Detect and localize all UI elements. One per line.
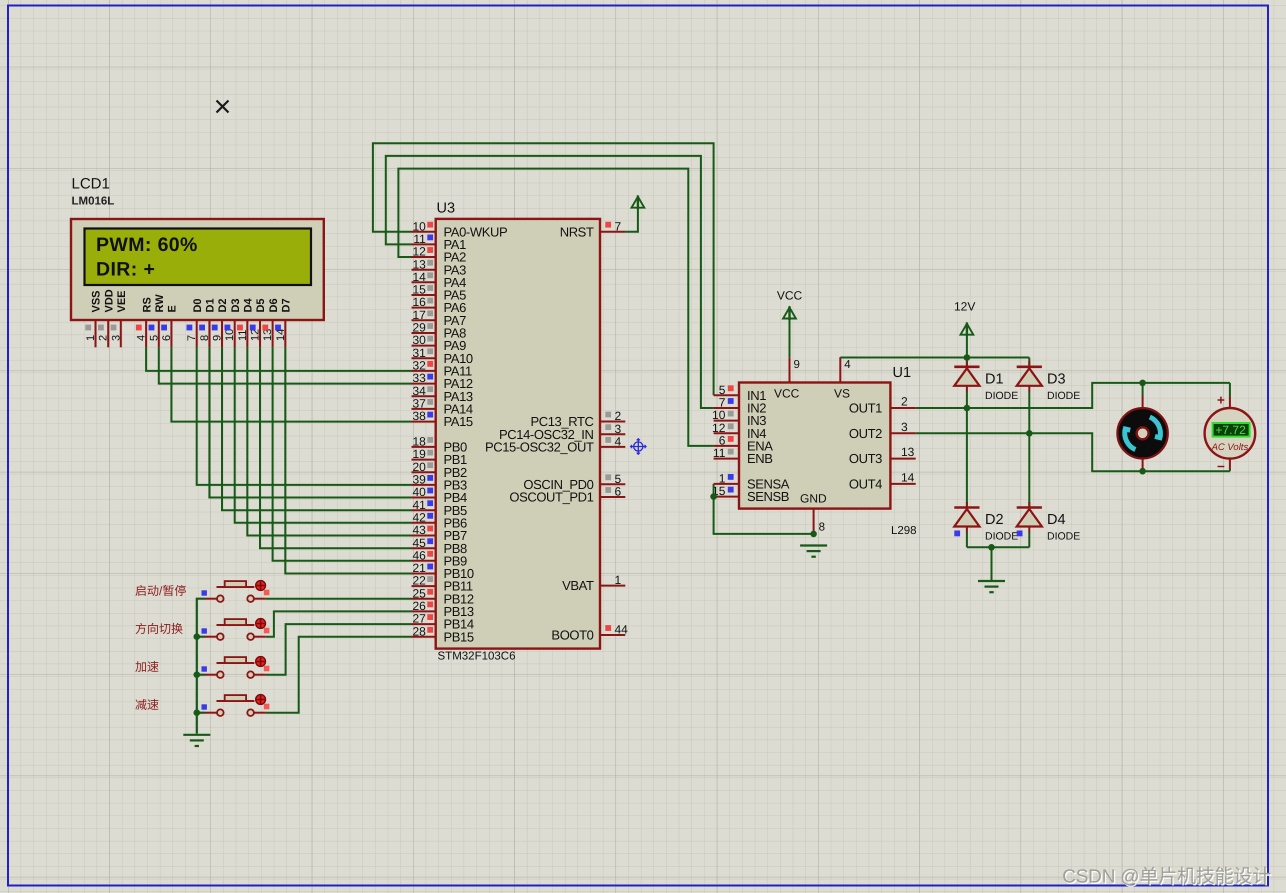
LCD pin 7 D0 bbox=[186, 298, 204, 347]
svg-text:D2: D2 bbox=[217, 298, 229, 312]
MCU U3 STM32F103C6 bbox=[436, 201, 600, 663]
svg-text:VBAT: VBAT bbox=[562, 578, 594, 593]
svg-text:GND: GND bbox=[800, 492, 827, 506]
U3 pin 13 PA3 bbox=[412, 257, 467, 277]
svg-text:5: 5 bbox=[148, 335, 160, 341]
svg-text:U1: U1 bbox=[893, 365, 912, 381]
U1 pin 14 OUT4 bbox=[849, 471, 916, 492]
U3 pin 20 PB2 bbox=[412, 460, 468, 480]
U1 pin 10 IN3 bbox=[712, 408, 766, 428]
U3 pin 28 PB15 bbox=[412, 624, 474, 644]
svg-text:1: 1 bbox=[85, 335, 97, 341]
U3 pin 34 PA13 bbox=[412, 384, 473, 404]
svg-text:7: 7 bbox=[615, 219, 622, 233]
svg-text:STM32F103C6: STM32F103C6 bbox=[438, 651, 516, 663]
U3 pin 29 PA8 bbox=[412, 321, 467, 341]
svg-text:−: − bbox=[1217, 459, 1225, 474]
svg-text:9: 9 bbox=[794, 359, 800, 371]
svg-text:12: 12 bbox=[250, 329, 262, 341]
svg-text:NRST: NRST bbox=[560, 224, 594, 239]
U3 pin 12 PA2 bbox=[412, 245, 467, 265]
VCC power symbol bbox=[777, 289, 803, 358]
U1 pin 2 OUT1 bbox=[849, 395, 916, 416]
U3 pin 31 PA10 bbox=[412, 346, 473, 366]
push button SW2 方向切换 bbox=[135, 619, 269, 640]
U3 pin 17 PA7 bbox=[412, 308, 467, 328]
U3 pin 16 PA6 bbox=[412, 295, 467, 315]
svg-text:13: 13 bbox=[901, 445, 915, 459]
U3 pin 41 PB5 bbox=[412, 498, 468, 518]
U3 pin 44 BOOT0 bbox=[551, 623, 628, 643]
svg-text:DIODE: DIODE bbox=[1047, 531, 1080, 543]
svg-text:减速: 减速 bbox=[135, 698, 159, 712]
wire junction bbox=[194, 671, 201, 678]
wire LCD pin 6 to U3 bbox=[171, 347, 411, 421]
12V power symbol bbox=[954, 300, 975, 358]
junction D1/D2/OUT1 bbox=[964, 405, 971, 412]
wire 12V rail to D3 bbox=[967, 357, 1029, 359]
U3 pin 7 NRST bbox=[560, 219, 626, 239]
svg-text:OUT1: OUT1 bbox=[849, 401, 882, 416]
wire LCD pin 4 to U3 bbox=[146, 347, 411, 371]
svg-text:RW: RW bbox=[154, 294, 166, 313]
wire OUT1 to motor top bbox=[916, 383, 1230, 408]
U3 pin 14 PA4 bbox=[412, 270, 467, 290]
svg-text:10: 10 bbox=[224, 329, 236, 341]
junction motor bottom bbox=[1139, 468, 1146, 475]
motor M1 bbox=[1117, 408, 1167, 458]
svg-text:44: 44 bbox=[615, 623, 629, 637]
LCD pin 14 D7 bbox=[275, 298, 293, 347]
push button SW1 启动/暂停 bbox=[135, 581, 269, 602]
push button SW4 减速 bbox=[135, 695, 269, 716]
svg-text:+7.72: +7.72 bbox=[1215, 423, 1246, 437]
wire LCD pin 10 to U3 bbox=[235, 347, 412, 523]
svg-text:OUT4: OUT4 bbox=[849, 477, 882, 492]
svg-text:+: + bbox=[1217, 393, 1225, 408]
svg-text:L298: L298 bbox=[891, 525, 917, 537]
U3 pin 37 PA14 bbox=[412, 397, 473, 417]
wire SW3 to PB14 bbox=[266, 624, 412, 675]
svg-text:8: 8 bbox=[819, 522, 825, 534]
svg-text:OUT3: OUT3 bbox=[849, 451, 882, 466]
U3 pin 42 PB6 bbox=[412, 510, 468, 530]
LCD pin 3 VEE bbox=[110, 290, 128, 347]
svg-text:PC15-OSC32_OUT: PC15-OSC32_OUT bbox=[485, 440, 594, 455]
U3 pin 6 OSCOUT_PD1 bbox=[509, 485, 625, 505]
voltmeter VM1 bbox=[1205, 393, 1256, 475]
wire to bridge ground bbox=[991, 547, 993, 580]
LCD pin 11 D4 bbox=[237, 298, 255, 348]
wire LCD pin 8 to U3 bbox=[209, 347, 411, 497]
svg-text:LCD1: LCD1 bbox=[72, 176, 110, 193]
svg-text:ENB: ENB bbox=[747, 451, 773, 466]
wire LCD pin 5 to U3 bbox=[159, 347, 412, 383]
U3 pin 21 PB10 bbox=[412, 561, 474, 581]
U1 pin 9 VCC top bbox=[790, 357, 800, 382]
U3 pin 11 PA1 bbox=[412, 232, 467, 252]
junction 12V rail bbox=[964, 354, 971, 361]
wire PA2 to L298 ENA bbox=[398, 169, 713, 446]
wire bridge bottom rail bbox=[967, 546, 1029, 548]
U3 pin 40 PB4 bbox=[412, 485, 468, 505]
U3 pin 1 VBAT bbox=[562, 573, 625, 593]
svg-text:VS: VS bbox=[834, 387, 850, 401]
U1 pin 6 ENA bbox=[714, 434, 774, 454]
svg-text:4: 4 bbox=[615, 435, 622, 449]
ground under L298 bbox=[800, 544, 827, 546]
U3 pin 26 PB13 bbox=[412, 599, 474, 619]
U1 pin 4 VS top bbox=[840, 357, 851, 382]
U3 pin 10 PA0-WKUP bbox=[412, 219, 508, 239]
LCD pin 13 D6 bbox=[262, 298, 280, 347]
svg-text:VEE: VEE bbox=[116, 290, 128, 312]
svg-text:6: 6 bbox=[615, 485, 622, 499]
svg-text:OSCOUT_PD1: OSCOUT_PD1 bbox=[509, 490, 593, 505]
wire PA1 to L298 IN2 bbox=[386, 156, 714, 408]
svg-text:D7: D7 bbox=[281, 298, 293, 312]
svg-text:VDD: VDD bbox=[103, 289, 115, 312]
svg-text:28: 28 bbox=[412, 624, 426, 638]
U3 pin 22 PB11 bbox=[412, 574, 473, 594]
U1 pin 3 OUT2 bbox=[849, 420, 916, 441]
svg-text:VSS: VSS bbox=[91, 290, 103, 312]
svg-text:14: 14 bbox=[901, 471, 915, 485]
svg-text:7: 7 bbox=[186, 335, 198, 341]
svg-text:D2: D2 bbox=[985, 512, 1004, 528]
wire D1 to OUT1 node bbox=[966, 392, 968, 409]
LCD pin 6 E bbox=[161, 305, 179, 347]
U3 pin 5 OSCIN_PD0 bbox=[523, 472, 625, 492]
watermark bbox=[1062, 866, 1272, 888]
U1 pin 5 IN1 bbox=[714, 383, 767, 403]
svg-text:1: 1 bbox=[615, 573, 622, 587]
U3 pin 25 PB12 bbox=[412, 586, 474, 606]
U3 pin 32 PA11 bbox=[412, 359, 472, 379]
ground under buttons bbox=[183, 734, 210, 736]
svg-text:3: 3 bbox=[901, 420, 908, 434]
wire button common bus bbox=[197, 599, 205, 734]
wire LCD pin 11 to U3 bbox=[247, 347, 411, 535]
svg-text:D5: D5 bbox=[255, 298, 267, 312]
svg-text:DIODE: DIODE bbox=[1047, 390, 1080, 402]
diode D4 bbox=[1017, 502, 1081, 543]
svg-text:12V: 12V bbox=[954, 300, 975, 314]
svg-text:E: E bbox=[167, 305, 179, 312]
svg-text:D6: D6 bbox=[268, 298, 280, 312]
svg-text:4: 4 bbox=[844, 359, 851, 371]
U3 pin 2 PC13_RTC bbox=[530, 409, 625, 429]
LCD pin 2 VDD bbox=[98, 289, 116, 347]
diode D1 bbox=[954, 361, 1018, 402]
svg-text:加速: 加速 bbox=[135, 660, 159, 674]
svg-text:14: 14 bbox=[275, 329, 287, 341]
U1 pin 8 GND bottom bbox=[814, 509, 825, 534]
U1 pin 11 ENB bbox=[713, 446, 773, 466]
blue square D2 bbox=[954, 531, 960, 537]
wire LCD pin 9 to U3 bbox=[222, 347, 412, 510]
U1 pin 12 IN4 bbox=[712, 421, 766, 441]
power symbol at NRST bbox=[637, 196, 639, 210]
wire D2 to bottom rail bbox=[966, 532, 968, 547]
push button SW3 加速 bbox=[135, 657, 269, 678]
wire LCD pin 14 to U3 bbox=[285, 347, 411, 573]
diode D2 bbox=[954, 502, 1018, 543]
svg-text:D1: D1 bbox=[985, 371, 1004, 387]
svg-text:RS: RS bbox=[141, 297, 153, 312]
svg-text:OUT2: OUT2 bbox=[849, 426, 882, 441]
wire LCD pin 13 to U3 bbox=[273, 347, 412, 561]
svg-text:8: 8 bbox=[199, 335, 211, 341]
svg-text:SENSB: SENSB bbox=[747, 489, 789, 504]
wire SENSA/SENSB to GND bbox=[714, 484, 814, 534]
U3 pin 43 PB7 bbox=[412, 523, 468, 543]
U3 pin 27 PB14 bbox=[412, 612, 474, 632]
junction bottom rail bbox=[988, 544, 995, 551]
junction GND pin bbox=[810, 531, 817, 538]
origin cross mark bbox=[217, 101, 229, 113]
LCD LCD1 LM016L bbox=[71, 176, 324, 348]
wire SW1 to PB12 bbox=[266, 598, 412, 600]
wire junction bbox=[194, 633, 201, 640]
svg-text:D3: D3 bbox=[1047, 371, 1066, 387]
LCD pin 8 D1 bbox=[199, 298, 217, 347]
LCD pin 5 RW bbox=[148, 294, 166, 348]
junction motor top bbox=[1139, 380, 1146, 387]
U1 pin 1 SENSA bbox=[714, 472, 790, 492]
wire VS to 12V rail bbox=[840, 357, 967, 359]
wire PA0 to L298 IN1 bbox=[373, 143, 714, 395]
svg-text:6: 6 bbox=[161, 335, 173, 341]
U3 pin 3 PC14-OSC32_IN bbox=[499, 422, 625, 442]
junction SENSB bbox=[710, 493, 717, 500]
svg-text:VCC: VCC bbox=[777, 289, 803, 303]
svg-text:DIODE: DIODE bbox=[985, 531, 1018, 543]
svg-text:DIR: +: DIR: + bbox=[96, 259, 155, 281]
blue square D4 bbox=[1017, 531, 1023, 537]
LCD pin 4 RS bbox=[136, 297, 154, 347]
U3 pin 4 PC15-OSC32_OUT bbox=[485, 435, 625, 455]
wire SW4 to PB15 bbox=[266, 637, 412, 713]
U3 pin 33 PA12 bbox=[412, 371, 473, 391]
svg-text:D4: D4 bbox=[243, 298, 255, 313]
wire LCD pin 7 to U3 bbox=[197, 347, 412, 485]
LCD pin 9 D2 bbox=[212, 298, 230, 347]
svg-text:2: 2 bbox=[98, 335, 110, 341]
svg-text:3: 3 bbox=[110, 335, 122, 341]
svg-text:13: 13 bbox=[262, 329, 274, 341]
U3 pin 39 PB3 bbox=[412, 473, 468, 493]
svg-text:方向切换: 方向切换 bbox=[135, 622, 183, 636]
U3 pin 18 PB0 bbox=[412, 435, 468, 455]
U1 pin 13 OUT3 bbox=[849, 445, 916, 466]
svg-text:D1: D1 bbox=[205, 298, 217, 312]
LCD pin 12 D5 bbox=[250, 298, 268, 347]
wire OUT2 to motor bottom bbox=[916, 433, 1230, 471]
U1 pin 7 IN2 bbox=[714, 396, 767, 416]
svg-text:38: 38 bbox=[412, 409, 426, 423]
svg-text:D3: D3 bbox=[230, 298, 242, 312]
U3 pin 15 PA5 bbox=[412, 283, 467, 303]
voltmeter leads bbox=[1229, 383, 1231, 397]
motor leads bbox=[1142, 383, 1144, 396]
svg-text:4: 4 bbox=[136, 335, 148, 341]
svg-text:LM016L: LM016L bbox=[72, 195, 115, 207]
svg-text:2: 2 bbox=[901, 395, 908, 409]
wire NRST to power bbox=[625, 209, 638, 232]
U3 pin 19 PB1 bbox=[412, 447, 468, 467]
wire OUT1 node to D2 bbox=[966, 408, 968, 508]
wire LCD pin 12 to U3 bbox=[260, 347, 412, 548]
svg-text:U3: U3 bbox=[437, 201, 456, 217]
LCD pin 10 D3 bbox=[224, 298, 242, 347]
U3 pin 38 PA15 bbox=[412, 409, 473, 429]
svg-text:BOOT0: BOOT0 bbox=[551, 628, 593, 643]
svg-text:VCC: VCC bbox=[774, 387, 800, 401]
LCD pin 1 VSS bbox=[85, 290, 103, 347]
svg-text:PWM: 60%: PWM: 60% bbox=[96, 234, 198, 256]
U3 pin 45 PB8 bbox=[412, 536, 468, 556]
origin marker bbox=[631, 439, 647, 455]
wire D1 chain bbox=[966, 358, 968, 367]
motor driver U1 L298 bbox=[739, 365, 917, 537]
svg-text:PB15: PB15 bbox=[444, 629, 474, 644]
svg-text:CSDN @单片机技能设计: CSDN @单片机技能设计 bbox=[1062, 866, 1271, 887]
U1 pin 15 SENSB bbox=[712, 484, 789, 504]
U3 pin 46 PB9 bbox=[412, 548, 468, 568]
ground under bridge bbox=[978, 580, 1005, 582]
wire D3 chain bbox=[1028, 358, 1030, 367]
U3 pin 30 PA9 bbox=[412, 333, 467, 353]
svg-text:DIODE: DIODE bbox=[985, 390, 1018, 402]
svg-text:9: 9 bbox=[212, 335, 224, 341]
wire junction bbox=[194, 709, 201, 716]
junction D3/D4/OUT2 bbox=[1026, 430, 1033, 437]
svg-text:11: 11 bbox=[713, 446, 726, 460]
svg-text:D4: D4 bbox=[1047, 512, 1066, 528]
svg-text:AC Volts: AC Volts bbox=[1211, 442, 1249, 453]
svg-text:PA15: PA15 bbox=[444, 414, 473, 429]
svg-text:D0: D0 bbox=[192, 298, 204, 312]
LCD screen bbox=[85, 229, 312, 286]
svg-text:11: 11 bbox=[237, 330, 249, 341]
svg-text:启动/暂停: 启动/暂停 bbox=[135, 584, 186, 598]
wire SW2 to PB13 bbox=[266, 611, 412, 636]
diode D3 bbox=[1017, 361, 1081, 402]
